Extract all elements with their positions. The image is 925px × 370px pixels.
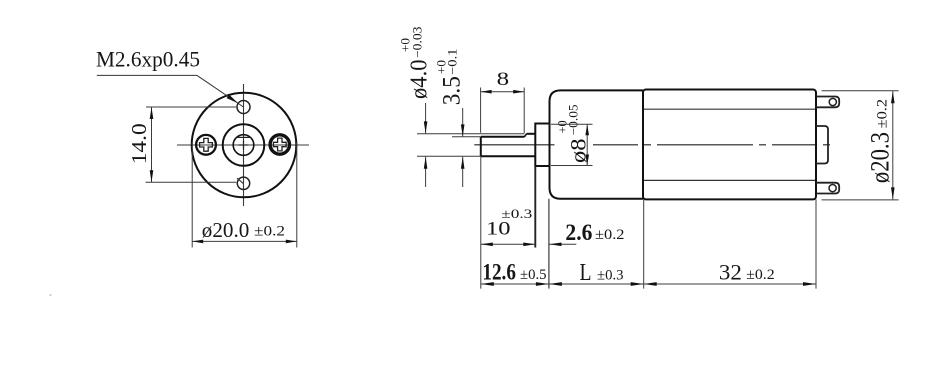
svg-text:2.6: 2.6 — [565, 220, 592, 245]
svg-text:ø8: ø8 — [566, 139, 591, 164]
dimension 14.0 extension lines — [146, 106, 237, 108]
svg-text:±0.5: ±0.5 — [520, 267, 547, 283]
bottom hole diagonal tick — [237, 178, 243, 183]
svg-text:±0.2: ±0.2 — [875, 99, 891, 129]
svg-text:M2.6xp0.45: M2.6xp0.45 — [96, 47, 200, 72]
shaft bottom edge — [481, 155, 536, 157]
dim ø20.3 line — [892, 91, 894, 199]
ext line flat left — [452, 136, 481, 138]
svg-text:32: 32 — [719, 260, 742, 285]
boss circle (ø8) — [223, 124, 265, 166]
arrows 12.6 — [481, 282, 494, 286]
svg-text:ø4.0: ø4.0 — [406, 60, 433, 100]
svg-text:−0.05: −0.05 — [567, 104, 581, 135]
arrows 32 — [644, 282, 657, 286]
svg-text:±0.2: ±0.2 — [254, 223, 285, 239]
bottom mounting hole — [237, 177, 249, 189]
dimension ø20.0 line — [192, 240, 297, 242]
svg-text:±0.2: ±0.2 — [595, 227, 625, 243]
terminal bottom hole — [829, 185, 836, 192]
motor body — [643, 90, 816, 200]
shaft flat step — [525, 134, 527, 137]
leader arrowhead — [227, 95, 239, 104]
dim 8 extension lines — [480, 88, 482, 133]
dimension 14.0 line — [151, 107, 153, 182]
svg-text:±0.2: ±0.2 — [746, 267, 775, 283]
text 14.0 rotated — [127, 123, 151, 164]
shaft flat top edge — [481, 136, 525, 138]
shaft circle (ø4) — [233, 135, 254, 156]
rear bearing boss — [816, 126, 829, 164]
screw right phillips cross — [273, 138, 286, 151]
ext line shaft bottom left — [417, 155, 481, 157]
arrow left — [192, 240, 203, 244]
dim 3.5 line upper — [462, 108, 464, 136]
dim ø4.0 line lower — [425, 157, 427, 187]
text ø20.3 ±0.2 rotated — [866, 99, 895, 183]
terminal bottom — [816, 183, 839, 194]
top mounting hole — [237, 101, 250, 114]
screw left ring — [196, 135, 216, 155]
stray speck — [50, 294, 52, 296]
svg-text:14.0: 14.0 — [127, 123, 151, 164]
dim bottom row line — [481, 283, 816, 285]
dim ø20.3 extension lines — [822, 90, 899, 92]
svg-text:12.6: 12.6 — [482, 260, 516, 285]
bottom extension lines — [480, 156, 482, 288]
svg-text:ø20.3: ø20.3 — [866, 132, 895, 183]
svg-text:ø20.0: ø20.0 — [202, 218, 250, 242]
arrow down — [150, 170, 154, 182]
gearbox body — [550, 90, 644, 198]
boss ø8 — [535, 124, 549, 167]
vertical centerline — [243, 84, 245, 206]
svg-text:10: 10 — [486, 219, 511, 239]
terminal top hole — [829, 98, 836, 105]
text ø4.0 +0 -0.03 rotated — [399, 27, 433, 100]
arrows L — [549, 282, 562, 286]
shaft full-dia top edge — [527, 133, 536, 135]
gearbox face outer circle — [192, 93, 297, 198]
svg-text:±0.3: ±0.3 — [597, 267, 624, 283]
text 3.5 +0 -0.1 rotated — [434, 48, 465, 105]
ext line shaft full dia top — [417, 133, 525, 135]
shaft flat chord — [237, 136, 251, 138]
horizontal centerline — [177, 144, 309, 146]
arrow right — [286, 240, 297, 244]
screw right ring — [270, 135, 289, 154]
dim ø8 line — [586, 124, 588, 165]
text ø8 +0 -0.05 rotated — [556, 104, 591, 163]
shaft tip — [480, 137, 482, 157]
main centerline dash-dot — [474, 144, 554, 146]
leader underline — [97, 74, 197, 76]
center cross — [239, 144, 249, 146]
svg-text:3.5: 3.5 — [438, 76, 465, 105]
screw left phillips cross — [200, 138, 213, 151]
dim 8 line — [481, 91, 525, 93]
motor can line bottom — [644, 179, 815, 181]
svg-text:8: 8 — [497, 69, 510, 90]
motor can line top — [644, 108, 815, 110]
dimension ø20.0 extension lines — [191, 142, 193, 248]
dim 3.5 line lower — [462, 157, 464, 187]
dim 10 line — [481, 243, 536, 245]
dim 2.6 arrow and tail — [550, 243, 577, 245]
leader line to top hole — [197, 75, 244, 107]
svg-text:−0.03: −0.03 — [411, 27, 425, 59]
terminal top — [816, 97, 839, 108]
dim ø8 extension lines — [551, 123, 593, 125]
svg-text:L: L — [580, 259, 592, 286]
dim ø4.0 line upper — [425, 103, 427, 133]
arrow up — [150, 107, 154, 119]
svg-text:−0.1: −0.1 — [445, 48, 459, 75]
